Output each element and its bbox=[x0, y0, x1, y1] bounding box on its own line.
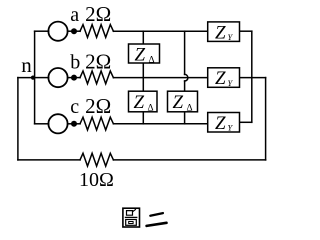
source c bbox=[48, 114, 67, 133]
wire: row a left stub (inner bus to source a) bbox=[35, 30, 49, 32]
node dot b bbox=[71, 75, 77, 81]
wire: row a from source to resistor bbox=[68, 30, 80, 32]
impedance box ZD1 bbox=[129, 44, 160, 63]
impedance box ZY1 bbox=[208, 22, 240, 42]
svg-text:2Ω: 2Ω bbox=[85, 2, 111, 26]
impedance box ZD3 bbox=[168, 91, 198, 112]
resistor 2ohm row b bbox=[80, 71, 113, 84]
svg-text:n: n bbox=[21, 53, 32, 77]
svg-text:2Ω: 2Ω bbox=[85, 94, 111, 118]
wire: V1 ZD2 to row c bbox=[142, 112, 144, 124]
wire: row b left stub bbox=[35, 77, 49, 79]
svg-text:c: c bbox=[70, 96, 79, 118]
wire: row c from source to resistor bbox=[68, 123, 80, 125]
wire: V1 ZD1 to row b bbox=[142, 63, 144, 78]
wire: ZY2 output bbox=[240, 77, 266, 79]
wire: right outer vertical to bottom bbox=[265, 78, 267, 160]
wire: inner left vertical bus a-b-c bbox=[34, 31, 36, 124]
resistor 10ohm bbox=[80, 153, 113, 166]
source a bbox=[48, 22, 67, 41]
svg-text:Z: Z bbox=[215, 68, 226, 89]
svg-text:Z: Z bbox=[135, 44, 146, 65]
svg-text:Z: Z bbox=[215, 22, 226, 43]
wire: ZY1 output bbox=[240, 30, 252, 32]
wire: node n horizontal bbox=[18, 77, 35, 79]
caption glyph tu (figure) bbox=[123, 208, 140, 227]
wire: row a resistor to ZY1 bbox=[113, 30, 207, 32]
wire: ZY3 output bbox=[240, 121, 252, 123]
wire: row c resistor to ZY3 bbox=[113, 123, 207, 125]
wire: bottom left segment bbox=[18, 159, 80, 161]
wire: V1 row b to ZD2 bbox=[142, 78, 144, 92]
wire: V1 row a to ZD1 bbox=[142, 31, 144, 44]
svg-text:Δ: Δ bbox=[149, 56, 155, 66]
svg-text:Z: Z bbox=[215, 113, 226, 134]
wire: V2 ZD3 to row c bbox=[184, 112, 186, 124]
wire hop over row b bbox=[185, 74, 188, 81]
resistor 2ohm row c bbox=[80, 117, 113, 130]
caption glyph er (two) bbox=[147, 213, 167, 226]
svg-text:2Ω: 2Ω bbox=[85, 50, 111, 74]
wire: bottom right segment bbox=[113, 159, 265, 161]
resistor 2ohm row a bbox=[80, 25, 113, 38]
node dot n bbox=[31, 76, 35, 80]
impedance box ZD2 bbox=[129, 91, 158, 112]
wire: outer left vertical n to bottom bbox=[17, 78, 19, 160]
impedance box ZY3 bbox=[208, 113, 240, 133]
svg-text:Z: Z bbox=[173, 92, 184, 113]
svg-text:b: b bbox=[70, 52, 80, 74]
wire: row b from source to resistor bbox=[68, 77, 80, 79]
svg-text:Δ: Δ bbox=[187, 104, 193, 114]
impedance box ZY2 bbox=[208, 68, 240, 88]
source b bbox=[48, 68, 67, 87]
svg-text:Δ: Δ bbox=[148, 104, 154, 114]
svg-text:Z: Z bbox=[134, 92, 145, 113]
svg-text:a: a bbox=[70, 4, 79, 26]
node dot a bbox=[71, 28, 77, 34]
wire: row b resistor to ZY2 bbox=[113, 77, 207, 79]
wire: V2 row a down to hop bbox=[184, 31, 186, 74]
node dot c bbox=[71, 121, 77, 127]
svg-text:10Ω: 10Ω bbox=[79, 169, 114, 191]
wire: row c left stub bbox=[35, 123, 49, 125]
wire: V2 hop to ZD3 bbox=[184, 81, 186, 91]
wire: right vertical ZY1-ZY3 bbox=[251, 31, 253, 122]
